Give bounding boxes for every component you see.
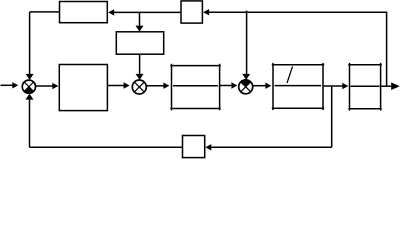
arrowhead down into block F1 top: [136, 26, 144, 32]
arrowhead into block G1 (right side): [108, 9, 114, 15]
arrowhead into block A1: [52, 83, 58, 89]
block G1 (top-left rectangle): [60, 2, 108, 23]
arrowhead into block C1: [265, 83, 271, 89]
wire input to S1: [1, 84, 14, 86]
summing junction S2: [132, 80, 146, 94]
arrowhead down into S3 top: [242, 74, 250, 80]
block E1 (small top rectangle): [181, 1, 202, 23]
block H1 (bottom feedback rectangle): [183, 136, 205, 158]
wire B1 to S3: [220, 85, 232, 87]
wire F1 down to S2: [139, 54, 141, 74]
arrowhead input into S1: [12, 82, 18, 88]
wire S1 to A1: [36, 85, 53, 87]
arrowhead down into S1 top: [26, 74, 34, 80]
arrowhead into block D1: [342, 83, 348, 89]
wire S3 to C1: [253, 85, 266, 87]
wire left vertical down to S1: [29, 12, 31, 74]
arrowhead into block B1: [163, 83, 169, 89]
arrowhead up into S1 bottom: [26, 94, 34, 100]
wire pickoff vertical down (between C1 and D1): [331, 86, 333, 147]
wire C1 to D1: [323, 85, 343, 87]
block D1 (narrow fraction block): [348, 63, 382, 111]
wire branch down to S3: [246, 11, 248, 75]
arrowhead down into S2 top: [136, 74, 144, 80]
block B1 (fraction block): [170, 64, 221, 111]
wire output pickoff vertical up (right): [386, 12, 388, 86]
wire branch down to F1: [139, 12, 141, 26]
arrowhead into block H1 (bottom feedback): [205, 144, 211, 150]
arrowhead into S3: [231, 82, 237, 88]
slash glyph in block C1 numerator: [287, 67, 293, 84]
wire G1 output left: [30, 11, 60, 13]
block F1 (rectangle under top line): [116, 32, 163, 54]
wire up into S1 bottom: [29, 100, 31, 148]
arrowhead into block E1 (top feedback): [203, 9, 209, 15]
wire D1 to output: [381, 85, 392, 87]
wire E1 to G1: [113, 11, 181, 13]
summing junction S3: [239, 80, 253, 94]
arrowhead system output: [391, 82, 400, 90]
wire S2 to B1: [146, 85, 163, 87]
wire bottom feedback right segment: [211, 146, 332, 148]
arrowhead into S2: [124, 82, 130, 88]
wire top feedback line: [209, 11, 387, 13]
wire A1 to S2: [107, 85, 123, 87]
fraction bar of block D1: [351, 85, 380, 87]
fraction bar of block B1: [173, 85, 218, 87]
fraction bar of block C1: [275, 85, 322, 87]
summing junction S1: [22, 80, 35, 93]
block A1 (first big square block): [59, 65, 107, 111]
wire bottom feedback left segment: [30, 146, 183, 148]
block C1 (fraction block with slash): [272, 63, 324, 110]
